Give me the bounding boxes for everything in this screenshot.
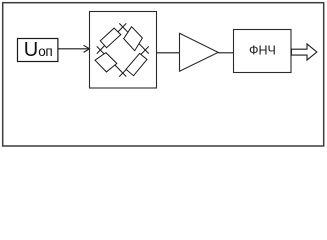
ring diagonal lead SE (bottom corner to right corner, extended)	[119, 46, 149, 76]
wire from ring modulator to amplifier	[157, 52, 180, 54]
ring diagonal lead NE (top corner to right corner, extended)	[119, 23, 149, 53]
amplifier (triangle)	[180, 33, 219, 71]
output block arrow	[291, 44, 316, 60]
ring diagonal lead SW (left corner to bottom corner, extended)	[97, 46, 127, 76]
ring element NW (tilted rectangle)	[100, 28, 121, 48]
svg-text:ФНЧ: ФНЧ	[249, 43, 276, 57]
ring element SW (tilted rectangle)	[95, 53, 117, 72]
outer frame	[3, 3, 324, 146]
block FNCh (low-pass filter)	[234, 30, 292, 73]
wire from amplifier to LPF	[218, 52, 234, 54]
ring modulator block box	[90, 12, 157, 89]
block U_op (reference oscillator source)	[18, 39, 58, 62]
ring diagonal lead NW (left corner to top corner, extended)	[97, 23, 127, 53]
wire from U_op to ring modulator with arrowhead	[58, 45, 90, 52]
ring element SE (tilted rectangle)	[126, 53, 147, 75]
ring element NE (tilted rectangle)	[124, 27, 143, 51]
